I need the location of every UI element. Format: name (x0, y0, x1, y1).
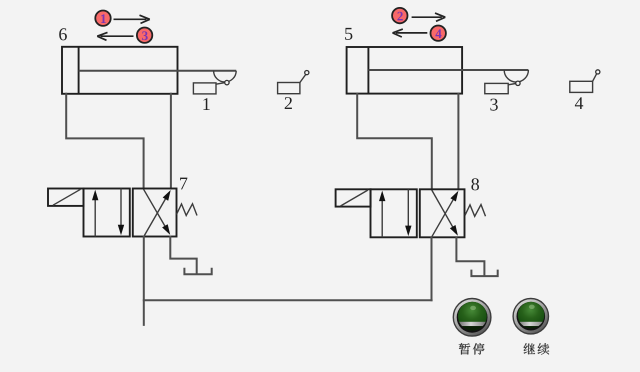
valve 7 up arrow (92, 190, 98, 237)
valve 8 exhaust symbol (471, 271, 497, 277)
roller valve 1 body (193, 83, 216, 94)
lever valve 4 body (570, 81, 593, 92)
label continue (jixu) (524, 343, 550, 354)
roller valve 3 lever (508, 84, 515, 85)
arrow step 1 right (114, 15, 150, 23)
roller valve 3 wheel (516, 81, 520, 85)
valve 7 cross arrow up (144, 190, 171, 237)
valve 7 cross arrow down (144, 189, 171, 235)
valve 7 pilot (48, 189, 84, 206)
valve 8 down arrow (405, 189, 411, 236)
cam on rod 5 (504, 70, 528, 82)
lever valve 2 knob (305, 71, 309, 75)
cylinder 5 piston rod (368, 69, 528, 71)
arrow step 3 left (97, 32, 133, 40)
button continue (513, 299, 548, 335)
wire cyl5 left port to valve8 (357, 94, 432, 190)
step marker 3 (137, 28, 152, 43)
label 2 (285, 97, 292, 109)
supply bus wire (144, 299, 432, 301)
valve 8 pilot (336, 189, 371, 206)
valve 7 left position box (84, 189, 130, 237)
cylinder 5 label (345, 28, 352, 40)
wire cyl6 left port to valve7 (66, 94, 143, 189)
cylinder 6 label (59, 28, 67, 40)
lever valve 4 knob (596, 70, 600, 74)
valve 8 left position box (371, 189, 417, 237)
valve 7 exhaust line (170, 237, 196, 274)
valve 8 up arrow (379, 191, 385, 238)
valve 8 cross arrow down (432, 190, 458, 236)
label 1 (203, 98, 209, 110)
valve 7 down arrow (118, 189, 124, 236)
valve 7 right position box (133, 189, 177, 237)
valve 8 spring (465, 205, 486, 217)
cam on rod 6 (214, 71, 237, 82)
step marker 4 (431, 26, 446, 41)
cylinder 5 piston (367, 47, 369, 94)
roller valve 3 body (485, 83, 508, 93)
roller valve 1 wheel (225, 80, 229, 84)
step marker 2 (392, 8, 407, 23)
arrow step 2 right (412, 13, 446, 21)
cylinder 6 body (62, 47, 178, 94)
cylinder 5 body (347, 47, 463, 94)
label pause (zanting) (459, 343, 485, 355)
label 7 (180, 178, 187, 190)
label 3 (490, 99, 497, 111)
wire cyl5 right port to valve8 (457, 94, 459, 190)
button pause (453, 299, 491, 337)
valve 7 supply wire (143, 237, 145, 325)
step marker 1 (95, 11, 110, 26)
wire cyl6 right port to valve7 (170, 94, 172, 189)
valve 7 exhaust symbol (184, 269, 211, 274)
valve 7 spring (177, 204, 198, 216)
valve 8 exhaust line (456, 237, 484, 275)
lever valve 2 body (278, 83, 300, 94)
label 8 (471, 178, 479, 190)
label 4 (575, 97, 583, 109)
valve 8 supply wire (431, 237, 433, 300)
lever valve 2 lever (300, 75, 306, 83)
valve 8 right position box (420, 189, 465, 237)
cylinder 6 piston (78, 47, 80, 94)
lever valve 4 lever (593, 74, 597, 82)
cylinder 6 piston rod (79, 70, 237, 72)
roller valve 1 lever (216, 83, 225, 85)
valve 8 cross arrow up (432, 191, 459, 238)
arrow step 4 left (393, 29, 428, 37)
